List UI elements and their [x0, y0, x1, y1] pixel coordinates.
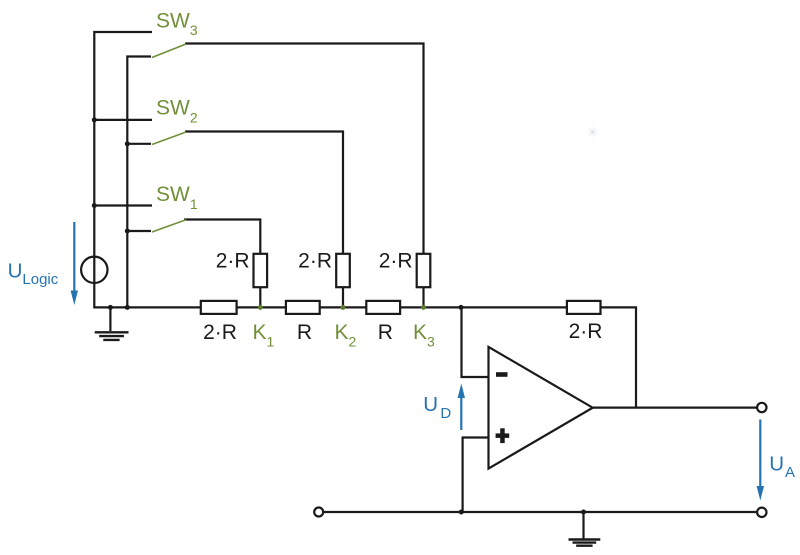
switch SW3 arm — [152, 44, 186, 58]
resistor 2R (feedback) — [567, 301, 601, 314]
arrow U_D — [458, 384, 465, 431]
wire: op-amp output to terminal — [593, 407, 757, 409]
terminal (bottom-left) — [314, 508, 323, 517]
svg-text:2·R: 2·R — [216, 249, 250, 272]
wire: bottom ground rail — [323, 511, 757, 513]
terminal (output top) — [757, 403, 766, 412]
svg-text:R: R — [297, 321, 312, 344]
resistor R (series, middle) — [286, 301, 320, 314]
resistor 2R (shunt, K2) — [336, 254, 350, 287]
arrow U_A — [757, 420, 764, 501]
wire: SW1 lower contact — [127, 230, 151, 232]
node K2 — [341, 305, 346, 310]
op-amp U1 — [489, 347, 593, 469]
node K3 — [421, 305, 426, 310]
ground (right) — [569, 540, 601, 546]
arrow U_Logic — [71, 222, 78, 305]
wire: SW2 upper contact — [94, 119, 152, 121]
artifact smudge — [588, 127, 598, 137]
wire: SW2 lower contact — [127, 143, 151, 145]
switch SW1 arm — [152, 220, 186, 232]
resistor 2R (shunt, K1) — [254, 254, 268, 287]
wire: SW1 output to resistor R1t — [184, 220, 260, 308]
wire: summing node to op-amp inverting input — [462, 307, 488, 377]
wire: ground-side rail with SW3 lower contact — [127, 57, 151, 308]
switch SW2 arm — [152, 132, 186, 145]
terminal (output bottom) — [757, 508, 766, 517]
ground (left) — [95, 332, 129, 340]
svg-text:2·R: 2·R — [569, 320, 603, 343]
wire: SW3 output to resistor R3t — [185, 44, 424, 308]
svg-text:R: R — [378, 321, 393, 344]
svg-text:2·R: 2·R — [203, 321, 237, 344]
wire: op-amp non-inverting input to ground rail — [463, 438, 488, 513]
wire: U_Logic rail with SW3 upper contact and bottom node line — [94, 32, 461, 307]
node K1 — [258, 305, 263, 310]
resistor 2R (series, left) — [201, 301, 237, 314]
svg-text:2·R: 2·R — [379, 249, 413, 272]
svg-text:2·R: 2·R — [298, 249, 332, 272]
wire: SW2 output to resistor R2t — [185, 132, 343, 308]
wire: feedback path through Rf to output — [461, 307, 636, 407]
wire: right ground stub — [582, 512, 584, 539]
source U_Logic — [81, 257, 107, 283]
wire: left ground stub — [109, 307, 111, 331]
resistor R (series, right) — [366, 301, 400, 314]
resistor 2R (shunt, K3) — [417, 254, 431, 287]
wire: SW1 upper contact — [94, 204, 152, 206]
